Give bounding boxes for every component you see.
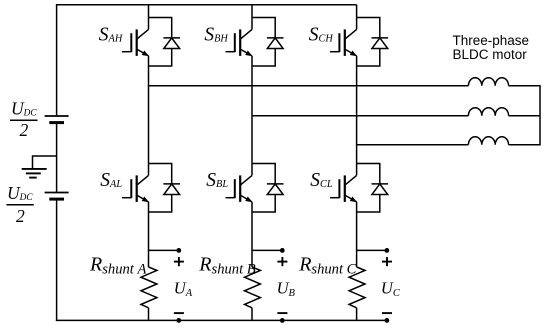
resistor R_shunt C <box>349 267 365 308</box>
svg-text:2: 2 <box>16 206 25 226</box>
svg-text:UC: UC <box>381 279 401 299</box>
label + polarity C <box>382 257 392 266</box>
wire R_shunt C to bottom bus <box>356 308 358 321</box>
label + polarity A <box>174 257 184 266</box>
junction dot sense + C <box>385 248 390 253</box>
svg-text:Rshunt A: Rshunt A <box>89 253 146 277</box>
wire R_shunt A to bottom bus <box>148 308 150 321</box>
wire phase B output to motor <box>252 115 468 117</box>
label R_shunt C <box>298 253 356 277</box>
junction dot sense - C on bottom bus <box>385 318 390 323</box>
wire phase C leg: top bus to collector <box>356 5 358 18</box>
inductor motor winding phase C <box>468 137 508 145</box>
battery U_DC/2 lower <box>45 193 69 200</box>
label U_A <box>174 279 193 299</box>
wire emitter BL to shunt resistor <box>251 202 253 267</box>
label S_BH <box>204 25 228 46</box>
wire left DC bus upper segment <box>56 4 58 116</box>
svg-text:SAL: SAL <box>100 170 122 191</box>
svg-text:Rshunt B: Rshunt B <box>198 253 255 277</box>
diode antiparallel with S_BL <box>252 164 284 213</box>
wire sense tap + of R_shunt C <box>357 249 387 251</box>
svg-text:SBL: SBL <box>206 170 228 191</box>
svg-text:UB: UB <box>277 279 296 299</box>
svg-text:UDC: UDC <box>7 183 33 203</box>
junction dot sense + B <box>280 248 285 253</box>
wire phase C node: emitter CH to collector CL <box>356 56 358 164</box>
ground <box>22 169 47 178</box>
svg-text:SCL: SCL <box>310 170 333 191</box>
wire sense tap + of R_shunt A <box>149 249 179 251</box>
svg-text:2: 2 <box>20 120 29 140</box>
wire top DC+ bus <box>57 4 357 6</box>
label R_shunt A <box>89 253 146 277</box>
svg-text:Rshunt C: Rshunt C <box>298 253 356 277</box>
wire winding C to star point <box>509 144 540 146</box>
label R_shunt B <box>198 253 255 277</box>
wire left DC bus middle segment <box>56 123 58 193</box>
wire phase A leg: top bus to collector <box>148 5 150 18</box>
diode antiparallel with S_BH <box>252 18 284 67</box>
transistor S_CH <box>330 18 357 57</box>
junction dot sense - A on bottom bus <box>176 318 181 323</box>
label S_BL <box>206 170 228 191</box>
svg-text:SCH: SCH <box>309 25 334 46</box>
transistor S_CL <box>330 164 357 203</box>
label + polarity B <box>277 257 287 266</box>
label - polarity A <box>174 312 184 314</box>
label U_DC/2 upper <box>10 98 38 140</box>
wire left DC bus lower segment <box>56 199 58 321</box>
junction dot sense + A <box>176 248 181 253</box>
wire emitter CL to shunt resistor <box>356 202 358 267</box>
wire winding A to star point <box>509 85 540 87</box>
wire bottom DC- bus <box>56 319 387 321</box>
wire phase B leg: top bus to collector <box>251 5 253 18</box>
diode antiparallel with S_CH <box>357 18 389 67</box>
label S_AH <box>99 25 123 46</box>
label U_DC/2 lower <box>6 183 33 226</box>
label - polarity C <box>382 312 392 314</box>
diode antiparallel with S_AL <box>149 164 181 213</box>
label Three-phase BLDC motor <box>453 33 530 62</box>
svg-text:Three-phase: Three-phase <box>453 33 530 48</box>
svg-text:SBH: SBH <box>204 25 228 46</box>
wire sense tap + of R_shunt B <box>252 249 282 251</box>
label - polarity B <box>277 312 287 314</box>
transistor S_BL <box>226 164 253 203</box>
label S_CL <box>310 170 333 191</box>
wire motor star point <box>539 85 541 145</box>
label S_AL <box>100 170 122 191</box>
svg-text:BLDC motor: BLDC motor <box>453 47 528 62</box>
svg-text:UA: UA <box>174 279 193 299</box>
wire ground stub <box>33 156 57 169</box>
label U_B <box>277 279 296 299</box>
transistor S_AL <box>122 164 149 203</box>
battery U_DC/2 upper <box>45 116 69 123</box>
wire R_shunt B to bottom bus <box>251 308 253 321</box>
label U_C <box>381 279 401 299</box>
transistor S_AH <box>122 18 149 57</box>
svg-text:UDC: UDC <box>11 98 37 118</box>
inductor motor winding phase A <box>468 78 508 86</box>
wire emitter AL to shunt resistor <box>148 202 150 267</box>
label S_CH <box>309 25 334 46</box>
wire phase A node: emitter AH to collector AL <box>148 56 150 164</box>
resistor R_shunt B <box>245 267 261 308</box>
wire phase B node: emitter BH to collector BL <box>251 56 253 164</box>
junction dot sense - B on bottom bus <box>280 318 285 323</box>
wire winding B to star point <box>509 115 540 117</box>
wire phase A output to motor <box>149 85 469 87</box>
wire phase C output to motor <box>357 144 469 146</box>
svg-text:SAH: SAH <box>99 25 123 46</box>
transistor S_BH <box>226 18 253 57</box>
diode antiparallel with S_AH <box>149 18 181 67</box>
resistor R_shunt A <box>141 267 157 308</box>
diode antiparallel with S_CL <box>357 164 389 213</box>
inductor motor winding phase B <box>468 108 508 116</box>
